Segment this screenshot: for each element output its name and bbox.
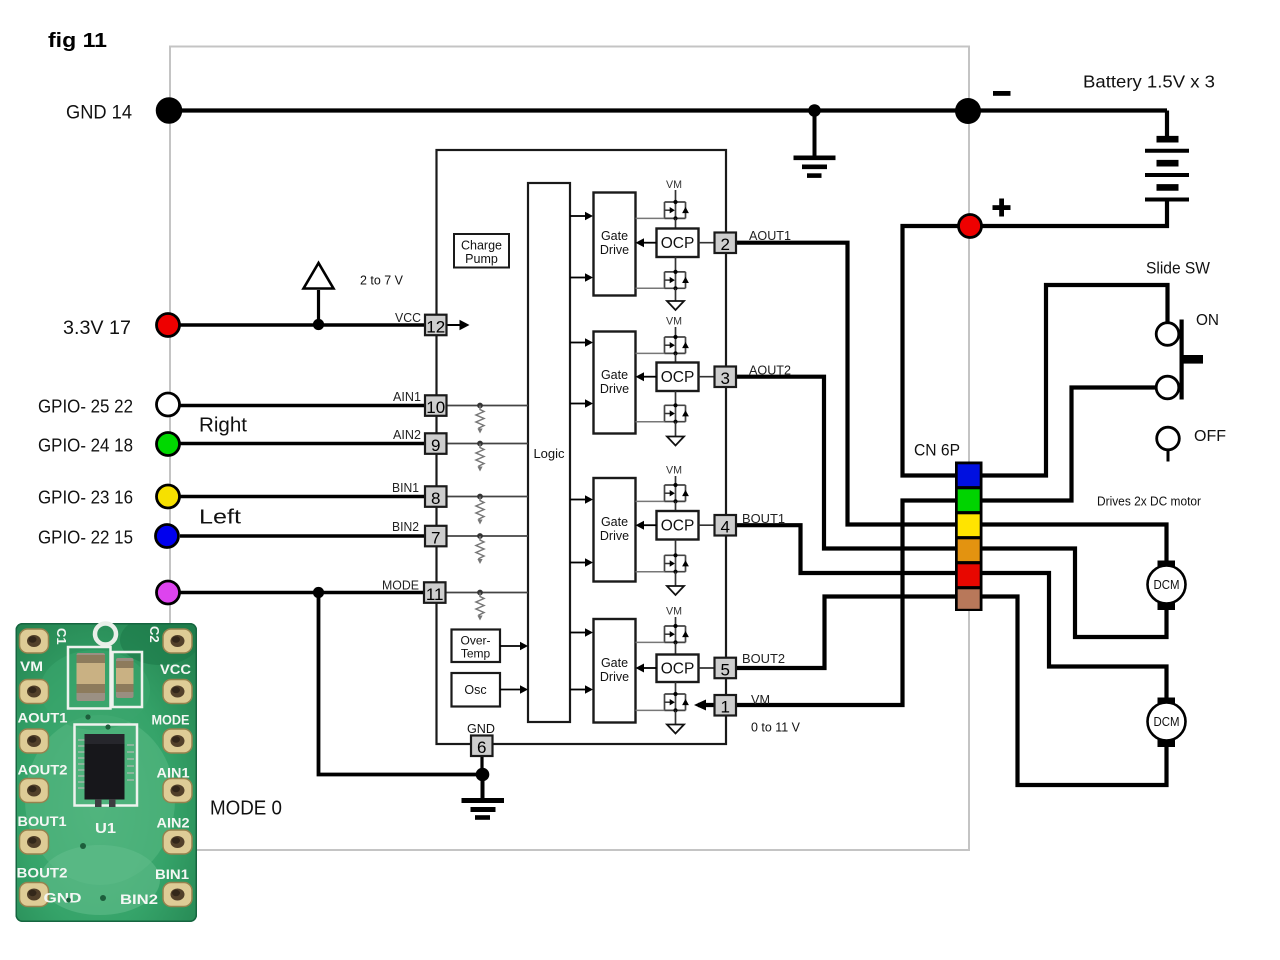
svg-text:OFF: OFF bbox=[1194, 428, 1226, 445]
arrow Logic to GateDriveB1 lower bbox=[570, 558, 593, 566]
svg-text:VCC: VCC bbox=[395, 311, 421, 325]
junction MODE bbox=[313, 587, 324, 598]
svg-text:OCP: OCP bbox=[661, 661, 695, 678]
PCB pad R5 bbox=[163, 830, 192, 854]
PCB pad L4 bbox=[20, 779, 49, 803]
arrow Logic to GateDriveA1 upper bbox=[570, 212, 593, 220]
PCB silk labels bbox=[17, 659, 192, 907]
svg-text:8: 8 bbox=[431, 489, 440, 508]
svg-text:GPIO- 24 18: GPIO- 24 18 bbox=[38, 435, 133, 456]
svg-text:C2: C2 bbox=[147, 626, 162, 643]
svg-text:DCM: DCM bbox=[1154, 715, 1180, 729]
svg-text:VM: VM bbox=[20, 659, 43, 674]
wire VM to FET B3 bbox=[675, 617, 677, 626]
pin 7 BIN2 bbox=[425, 526, 447, 548]
gate lead GateDriveB1 to FET B1 bbox=[636, 500, 665, 502]
arrow into VM pin1 bbox=[694, 700, 706, 711]
slide switch SW1 bbox=[1156, 320, 1203, 400]
wire OCP4 to FET B4 bbox=[675, 682, 677, 694]
svg-text:AOUT2: AOUT2 bbox=[749, 364, 791, 378]
svg-text:6: 6 bbox=[477, 738, 486, 757]
label plus bbox=[993, 199, 1011, 217]
svg-text:MODE: MODE bbox=[152, 713, 190, 728]
svg-text:OCP: OCP bbox=[661, 518, 695, 535]
CN pin 4 orange bbox=[958, 539, 980, 561]
wire VM to FET A3 bbox=[675, 327, 677, 337]
box Gate Drive B low bbox=[594, 619, 636, 723]
arrow Logic to GateDriveB2 lower bbox=[570, 685, 593, 693]
svg-text:BOUT2: BOUT2 bbox=[742, 652, 785, 666]
svg-text:Drives 2x DC motor: Drives 2x DC motor bbox=[1097, 494, 1202, 509]
PCB pad R2 bbox=[163, 680, 192, 704]
svg-text:Over-: Over- bbox=[461, 634, 491, 648]
box OCP B1 bbox=[657, 511, 699, 540]
wire OCP3 to FET B2 bbox=[675, 540, 677, 556]
svg-text:BOUT2: BOUT2 bbox=[17, 866, 68, 881]
svg-text:2: 2 bbox=[720, 235, 729, 254]
pin 10 AIN1 bbox=[425, 395, 447, 417]
gate lead GateDriveA2 to FET A3 bbox=[636, 352, 665, 354]
svg-text:Drive: Drive bbox=[600, 670, 629, 684]
transistor B2 high-side bbox=[665, 624, 689, 645]
wire pin8 to Logic bbox=[447, 496, 529, 498]
wire GND pin6 stub bbox=[480, 756, 483, 775]
wire FET A2 to ground bbox=[675, 288, 677, 301]
power arrow 2 to 7 V bbox=[304, 263, 334, 289]
resistor pulldown BIN2 bbox=[476, 533, 484, 564]
wire OCP1 to pin2 bbox=[699, 242, 716, 244]
svg-text:7: 7 bbox=[431, 529, 440, 548]
arrow Osc to Logic bbox=[500, 685, 528, 693]
transistor A high-side bbox=[665, 200, 689, 221]
svg-text:BIN1: BIN1 bbox=[155, 867, 190, 882]
PCB pad L1 bbox=[20, 629, 49, 653]
wire AOUT2 pin3 to CN orange bbox=[735, 377, 955, 549]
wire AIN1 bbox=[180, 404, 426, 408]
pin 6 GND bbox=[471, 736, 493, 758]
svg-text:VM: VM bbox=[666, 606, 682, 618]
ground triangle A2 bbox=[667, 437, 684, 446]
svg-text:AOUT2: AOUT2 bbox=[18, 763, 68, 778]
transistor B2 low-side bbox=[665, 692, 689, 713]
PCB pad R1 bbox=[163, 629, 192, 653]
motor M2 DCM bbox=[1148, 698, 1186, 748]
svg-text:MODE 0: MODE 0 bbox=[210, 798, 282, 820]
box Charge Pump bbox=[454, 234, 509, 268]
svg-text:Gate: Gate bbox=[601, 656, 628, 670]
svg-text:Gate: Gate bbox=[601, 368, 628, 382]
gate lead GateDriveB1 to FET B2 bbox=[636, 571, 665, 573]
resistor pulldown BIN1 bbox=[476, 494, 484, 525]
box Osc bbox=[452, 673, 501, 707]
wire OCP4 to pin5 bbox=[699, 667, 716, 669]
svg-text:VM: VM bbox=[666, 465, 682, 477]
box OCP A1 bbox=[657, 229, 699, 258]
wire VM to FET A1 bbox=[675, 190, 677, 202]
transistor B low-side bbox=[665, 553, 689, 574]
wire BOUT2 pin5 to CN brown bbox=[735, 597, 955, 669]
svg-text:3: 3 bbox=[720, 369, 729, 388]
IC chip U1 photo bbox=[75, 725, 138, 808]
svg-text:GND: GND bbox=[467, 721, 495, 736]
wire FET B4 to ground bbox=[675, 710, 677, 724]
ground triangle A1 bbox=[667, 301, 684, 310]
wire BIN2 bbox=[180, 534, 426, 538]
svg-text:GPIO- 22 15: GPIO- 22 15 bbox=[38, 527, 133, 548]
wire FET A1 to OCP1 bbox=[675, 218, 677, 228]
svg-text:ON: ON bbox=[1196, 312, 1219, 329]
svg-text:Drive: Drive bbox=[600, 243, 629, 257]
svg-text:AIN1: AIN1 bbox=[157, 766, 191, 781]
svg-text:Left: Left bbox=[199, 507, 242, 529]
box Gate Drive A high bbox=[594, 193, 636, 296]
frame (decorative gray border) bbox=[170, 47, 969, 851]
node GPIO-22 terminal bbox=[156, 525, 179, 548]
svg-text:5: 5 bbox=[720, 660, 729, 679]
CN pin 2 green bbox=[958, 489, 980, 511]
pin 3 AOUT2 bbox=[715, 367, 737, 389]
svg-text:1: 1 bbox=[720, 698, 729, 717]
svg-text:VM: VM bbox=[666, 179, 682, 191]
IC U1 DRV8835 outline bbox=[437, 150, 727, 744]
ground symbol top bbox=[794, 111, 836, 176]
PCB pad L5 bbox=[20, 830, 49, 854]
wire CN blue to slide switch ON bbox=[982, 285, 1168, 476]
wire FET A3 to OCP2 bbox=[675, 353, 677, 362]
node GPIO-23 terminal bbox=[157, 485, 180, 508]
junction VCC bbox=[313, 319, 324, 330]
svg-text:AIN2: AIN2 bbox=[157, 816, 190, 831]
svg-text:U1: U1 bbox=[95, 820, 116, 837]
wire FET B3 to OCP4 bbox=[675, 642, 677, 654]
pin 1 VM bbox=[715, 695, 737, 717]
svg-text:0 to 11 V: 0 to 11 V bbox=[751, 721, 801, 735]
wire BIN1 bbox=[180, 495, 426, 499]
transistor A2 high-side bbox=[665, 335, 689, 356]
wire pin7 to Logic bbox=[447, 535, 529, 537]
arrow Logic to GateDriveA2 upper bbox=[570, 338, 593, 346]
arrow OCP3 to GateDrive bbox=[636, 521, 657, 530]
gate lead GateDriveA1 to FET A1 bbox=[636, 217, 665, 219]
ground triangle B2 bbox=[667, 725, 684, 734]
svg-text:VM: VM bbox=[666, 316, 682, 328]
pin 5 BOUT2 bbox=[715, 658, 737, 680]
pin 9 AIN2 bbox=[425, 433, 447, 455]
pin 12 VCC bbox=[425, 315, 447, 337]
wire MODE bbox=[180, 591, 424, 595]
svg-text:BOUT1: BOUT1 bbox=[742, 512, 785, 526]
resistor pulldown AIN2 bbox=[476, 441, 484, 472]
pin 4 BOUT1 bbox=[715, 515, 737, 537]
PCB module photo bbox=[16, 615, 201, 922]
svg-text:VM: VM bbox=[751, 693, 770, 707]
wire BOUT1 pin4 to CN red bbox=[735, 525, 955, 573]
arrow Logic to GateDriveB2 upper bbox=[570, 628, 593, 636]
gate lead GateDriveA2 to FET A4 bbox=[636, 421, 665, 423]
CN pin 1 blue bbox=[958, 464, 980, 486]
svg-text:DCM: DCM bbox=[1154, 578, 1180, 592]
svg-text:OCP: OCP bbox=[661, 369, 695, 386]
svg-text:Drive: Drive bbox=[600, 382, 629, 396]
motor M1 DCM bbox=[1148, 561, 1186, 611]
capacitor C2 photo bbox=[113, 652, 143, 707]
PCB pad L6 bbox=[20, 883, 49, 907]
wire CN orange to DC motor 1 bottom bbox=[982, 549, 1167, 638]
node MODE terminal bbox=[157, 581, 180, 604]
arrow Over-Temp to Logic bbox=[500, 642, 528, 650]
box OCP B2 bbox=[657, 655, 699, 683]
svg-text:10: 10 bbox=[426, 398, 445, 417]
wire OCP2 to FET A4 bbox=[675, 391, 677, 405]
junction GND bottom bbox=[476, 768, 490, 782]
svg-text:Gate: Gate bbox=[601, 229, 628, 243]
CN pin 6 brown bbox=[958, 589, 980, 609]
box Over-Temp bbox=[452, 630, 501, 663]
capacitor C1 photo bbox=[68, 647, 111, 709]
arrow OCP2 to GateDrive bbox=[636, 372, 657, 381]
PCB pad R6 bbox=[163, 883, 192, 907]
arrow OCP1 to GateDrive bbox=[636, 238, 657, 247]
wire FET B1 to OCP3 bbox=[675, 501, 677, 511]
CN pin 3 yellow bbox=[958, 514, 980, 536]
gate lead GateDriveB2 to FET B4 bbox=[636, 709, 665, 711]
wire OCP1 to FET A2 bbox=[675, 257, 677, 272]
svg-text:AOUT1: AOUT1 bbox=[18, 711, 69, 726]
node battery minus junction bbox=[955, 98, 981, 124]
box OCP A2 bbox=[657, 363, 699, 392]
svg-text:MODE: MODE bbox=[382, 579, 419, 593]
resistor pulldown AIN1 bbox=[476, 403, 484, 434]
svg-text:AOUT1: AOUT1 bbox=[749, 229, 791, 243]
connector CN1 6P body bbox=[955, 462, 983, 612]
svg-text:Osc: Osc bbox=[464, 683, 486, 697]
transistor A low-side bbox=[665, 270, 689, 291]
svg-text:9: 9 bbox=[431, 436, 440, 455]
wire AIN2 bbox=[180, 442, 426, 446]
wire AOUT1 pin2 to DC motor 1 top bbox=[735, 243, 1167, 561]
svg-text:Battery 1.5V x 3: Battery 1.5V x 3 bbox=[1083, 72, 1215, 92]
wire FET B2 to ground bbox=[675, 572, 677, 586]
box Gate Drive B high bbox=[594, 478, 636, 582]
PCB pad L2 bbox=[20, 680, 49, 704]
wire OCP3 to pin4 bbox=[699, 524, 716, 526]
CN pin 5 red bbox=[958, 564, 980, 586]
svg-text:Temp: Temp bbox=[461, 647, 491, 661]
ground triangle B1 bbox=[667, 586, 684, 595]
pin 2 AOUT1 bbox=[715, 233, 737, 255]
label minus bbox=[993, 91, 1011, 96]
svg-text:GPIO- 25 22: GPIO- 25 22 bbox=[38, 396, 133, 417]
node battery plus terminal bbox=[959, 215, 982, 238]
wire VM to FET B1 bbox=[675, 476, 677, 485]
arrow Logic to GateDriveA1 lower bbox=[570, 273, 593, 281]
svg-text:Gate: Gate bbox=[601, 515, 628, 529]
arrow Logic to GateDriveA2 lower bbox=[570, 399, 593, 407]
switch OFF terminal bbox=[1157, 427, 1180, 461]
svg-text:GND: GND bbox=[44, 891, 82, 906]
svg-text:BIN2: BIN2 bbox=[120, 892, 158, 907]
gate lead GateDriveA1 to FET A2 bbox=[636, 287, 665, 289]
svg-text:Right: Right bbox=[199, 415, 247, 437]
svg-text:OCP: OCP bbox=[661, 235, 695, 252]
arrow OCP4 to GateDrive bbox=[636, 664, 657, 673]
wire FET A4 to ground bbox=[675, 422, 677, 437]
wire CN green to pin1 VM bbox=[698, 501, 955, 706]
svg-text:GND 14: GND 14 bbox=[66, 103, 132, 124]
wire pin10 to Logic bbox=[447, 405, 529, 407]
gate lead GateDriveB2 to FET B3 bbox=[636, 641, 665, 643]
wire battery plus bbox=[970, 202, 1167, 227]
svg-text:BOUT1: BOUT1 bbox=[18, 814, 68, 829]
svg-text:2 to 7 V: 2 to 7 V bbox=[360, 274, 404, 288]
box Logic bbox=[528, 183, 570, 722]
transistor A2 low-side bbox=[665, 403, 689, 424]
svg-text:GPIO- 23 16: GPIO- 23 16 bbox=[38, 487, 133, 508]
PCB white ring mark bbox=[95, 624, 116, 645]
wire MODE to GND junction bbox=[319, 593, 483, 775]
junction on GND rail bbox=[808, 104, 821, 117]
svg-text:BIN1: BIN1 bbox=[392, 481, 419, 495]
box Gate Drive A low bbox=[594, 332, 636, 434]
node GND 14 terminal bbox=[157, 99, 181, 123]
svg-text:4: 4 bbox=[720, 518, 729, 537]
wire OCP2 to pin3 bbox=[699, 376, 716, 378]
svg-text:11: 11 bbox=[426, 585, 444, 604]
battery B1 bbox=[1145, 139, 1189, 199]
svg-text:VCC: VCC bbox=[160, 662, 191, 677]
ground symbol bottom bbox=[462, 775, 505, 818]
svg-text:AIN2: AIN2 bbox=[393, 428, 421, 442]
wire pin9 to Logic bbox=[447, 443, 529, 445]
arrow Logic to GateDriveB1 upper bbox=[570, 495, 593, 503]
svg-text:Pump: Pump bbox=[465, 252, 498, 266]
PCB pad R3 bbox=[163, 729, 192, 753]
svg-text:3.3V 17: 3.3V 17 bbox=[63, 318, 131, 339]
svg-text:Charge: Charge bbox=[461, 239, 502, 253]
PCB vias bbox=[66, 714, 111, 902]
node GPIO-25 terminal bbox=[157, 393, 180, 416]
wire VM feed from battery plus to CN blue bbox=[903, 226, 959, 476]
wire VCC 3.3V bbox=[180, 323, 426, 327]
arrow VCC into IC bbox=[448, 320, 470, 331]
wire CN brown to DC motor 2 bottom bbox=[982, 597, 1167, 786]
PCB pad R4 bbox=[163, 779, 192, 803]
node GPIO-24 terminal bbox=[157, 433, 180, 456]
pin 11 MODE bbox=[424, 582, 446, 604]
svg-text:Slide SW: Slide SW bbox=[1146, 259, 1210, 278]
svg-text:Drive: Drive bbox=[600, 529, 629, 543]
resistor pulldown MODE bbox=[476, 590, 484, 621]
wire slide switch lower to CN green bbox=[982, 388, 1157, 501]
PCB pad L3 bbox=[20, 729, 49, 753]
wire GND rail bbox=[170, 111, 1167, 137]
svg-text:AIN1: AIN1 bbox=[393, 390, 421, 404]
wire pin11 to Logic bbox=[447, 592, 529, 594]
transistor B high-side bbox=[665, 483, 689, 504]
svg-text:C1: C1 bbox=[54, 628, 69, 645]
wire CN red to DC motor 2 top bbox=[982, 573, 1167, 698]
svg-text:Logic: Logic bbox=[533, 446, 565, 461]
svg-text:CN 6P: CN 6P bbox=[914, 442, 960, 460]
wire VCC stub up bbox=[317, 290, 320, 325]
pin 8 BIN1 bbox=[425, 486, 447, 508]
svg-text:12: 12 bbox=[426, 318, 445, 337]
node 3.3V terminal bbox=[157, 314, 180, 337]
svg-text:fig 11: fig 11 bbox=[48, 30, 107, 52]
svg-text:BIN2: BIN2 bbox=[392, 520, 419, 534]
